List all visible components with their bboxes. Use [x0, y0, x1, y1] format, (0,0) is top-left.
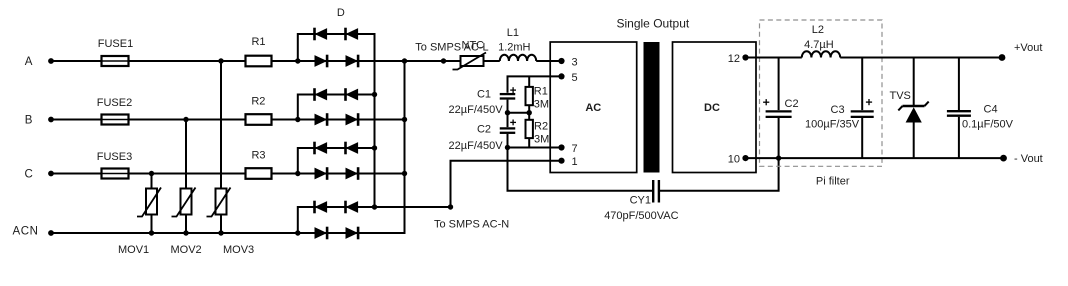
- junction bridge stub N: [295, 230, 300, 235]
- diode top-right B (points left): [346, 89, 359, 101]
- svg-text:L1: L1: [507, 27, 519, 39]
- junction C2/CY1 on -V rail: [776, 155, 781, 160]
- svg-text:C2: C2: [477, 124, 491, 136]
- diode top-left C (points left): [315, 142, 328, 154]
- svg-text:C4: C4: [984, 103, 998, 115]
- junction MOV1-ACN: [149, 230, 154, 235]
- junction bridge stub A: [295, 58, 300, 63]
- wire CY1 left: [508, 148, 653, 191]
- junction MOV3-ACN: [218, 230, 223, 235]
- svg-text:R2: R2: [251, 95, 265, 107]
- node -Vout: [1000, 155, 1007, 162]
- svg-text:1.2mH: 1.2mH: [498, 41, 530, 53]
- wire +V rail: [746, 57, 802, 59]
- svg-text:C: C: [24, 168, 32, 180]
- diode bottom-left C (points right): [315, 168, 328, 180]
- wire mid link: [508, 112, 530, 114]
- junction bus-A: [402, 58, 407, 63]
- svg-text:MOV2: MOV2: [171, 244, 202, 256]
- svg-text:100µF/35V: 100µF/35V: [805, 119, 860, 131]
- junction AC-N corner: [448, 204, 453, 209]
- diode bottom-left N (points right): [315, 227, 328, 239]
- diode top-left N (points left): [315, 201, 328, 213]
- wire phase A: [51, 60, 500, 62]
- wire phase C: [51, 173, 405, 175]
- junction bridge stub B: [295, 117, 300, 122]
- svg-text:470pF/500VAC: 470pF/500VAC: [604, 210, 678, 222]
- diode bottom-right C (points right): [346, 168, 359, 180]
- inductor L2: [802, 51, 840, 57]
- wire positive bus (bottom rows): [404, 61, 406, 234]
- diode top-left A (points left): [315, 28, 328, 40]
- resistor R3: [246, 168, 272, 179]
- converter AC box: [550, 42, 637, 173]
- node B terminal: [48, 117, 54, 123]
- diode top-right A (points left): [346, 28, 359, 40]
- svg-text:Single Output: Single Output: [617, 17, 690, 31]
- svg-text:B: B: [25, 114, 33, 126]
- svg-text:CY1: CY1: [630, 194, 651, 206]
- svg-text:4.7µH: 4.7µH: [804, 39, 834, 51]
- wire bridge stub and top row B: [298, 95, 375, 120]
- svg-text:R2: R2: [534, 121, 548, 133]
- wire pin5 net and C1 stem: [508, 76, 562, 92]
- svg-text:1: 1: [572, 156, 578, 168]
- wire C1-C2 link: [507, 100, 509, 128]
- varistor MOV1: [146, 189, 157, 215]
- junction bus-topB: [372, 92, 377, 97]
- capacitor C2 output: [778, 58, 780, 111]
- svg-text:5: 5: [572, 72, 578, 84]
- svg-text:- Vout: - Vout: [1014, 153, 1043, 165]
- fuse FUSE2: [102, 115, 129, 125]
- wire pin7 net: [508, 147, 562, 149]
- svg-text:FUSE1: FUSE1: [98, 38, 133, 50]
- diode top-right N (points left): [346, 201, 359, 213]
- pin 1: [558, 158, 564, 164]
- junction MOV1-C: [149, 171, 154, 176]
- wire AC-N row extension: [375, 206, 451, 208]
- pin 3: [558, 58, 564, 64]
- junction chain bottom: [505, 145, 510, 150]
- svg-text:+Vout: +Vout: [1014, 42, 1042, 54]
- node +Vout: [999, 54, 1006, 61]
- junction MOV2-B: [183, 117, 188, 122]
- junction bus-topN: [372, 204, 377, 209]
- capacitor C2: [500, 127, 516, 129]
- svg-text:C3: C3: [831, 104, 845, 116]
- wire -V rail: [746, 157, 1004, 159]
- node A terminal: [48, 58, 54, 64]
- svg-text:MOV1: MOV1: [118, 244, 149, 256]
- junction bus-C: [402, 171, 407, 176]
- junction mid chain: [505, 110, 510, 115]
- capacitor C3: [861, 58, 863, 111]
- svg-text:A: A: [25, 56, 33, 68]
- converter DC box: [673, 42, 757, 173]
- junction MOV2-ACN: [183, 230, 188, 235]
- svg-text:MOV3: MOV3: [223, 244, 254, 256]
- resistor R1: [246, 56, 272, 67]
- node ACN terminal: [48, 230, 54, 236]
- svg-text:TVS: TVS: [890, 90, 911, 102]
- wire CY1 right: [660, 158, 779, 191]
- junction bridge stub C: [295, 171, 300, 176]
- svg-text:D: D: [337, 7, 345, 19]
- diode bottom-right A (points right): [346, 55, 359, 67]
- svg-text:C1: C1: [477, 88, 491, 100]
- diode top-right C (points left): [346, 142, 359, 154]
- diode bottom-left B (points right): [315, 114, 328, 126]
- wire MOV3 stem: [220, 61, 222, 233]
- svg-text:To SMPS AC-N: To SMPS AC-N: [434, 218, 509, 230]
- svg-text:22µF/450V: 22µF/450V: [449, 104, 504, 116]
- svg-text:L2: L2: [812, 24, 824, 36]
- junction bus-topC: [372, 145, 377, 150]
- capacitor C1: [500, 93, 516, 95]
- svg-text:3M: 3M: [534, 133, 549, 145]
- resistor R1 bleeder: [528, 76, 530, 87]
- svg-text:R1: R1: [534, 86, 548, 98]
- junction bus-B: [402, 117, 407, 122]
- wire MOV1 stem: [151, 174, 153, 234]
- wire bridge stub and top row C: [298, 148, 375, 174]
- svg-text:12: 12: [728, 53, 740, 65]
- wire bridge stub and top row A: [298, 34, 375, 61]
- pin 5: [558, 73, 564, 79]
- svg-text:0.1µF/50V: 0.1µF/50V: [962, 119, 1014, 131]
- node AC-L: [441, 58, 446, 63]
- wire C2 bottom: [507, 134, 509, 148]
- dashed pi-filter box: [760, 20, 883, 166]
- resistor R2 bleeder: [528, 113, 530, 120]
- node C terminal: [48, 171, 54, 177]
- capacitor CY1: [652, 180, 654, 203]
- svg-text:AC: AC: [585, 102, 601, 114]
- svg-text:NTC: NTC: [462, 39, 485, 51]
- pin 7: [558, 144, 564, 150]
- diode bottom-right N (points right): [346, 227, 359, 239]
- svg-text:3: 3: [572, 56, 578, 68]
- varistor MOV3: [216, 189, 227, 215]
- wire pin1 net: [451, 161, 562, 207]
- svg-text:3M: 3M: [534, 99, 549, 111]
- svg-text:Pi filter: Pi filter: [816, 175, 850, 187]
- wire ACN line: [51, 232, 405, 234]
- svg-text:DC: DC: [704, 102, 720, 114]
- diode bottom-right B (points right): [346, 114, 359, 126]
- pin 12: [742, 54, 748, 60]
- svg-text:C2: C2: [785, 98, 799, 110]
- varistor MOV2: [181, 189, 192, 215]
- svg-text:FUSE2: FUSE2: [97, 97, 132, 109]
- diode bottom-left A (points right): [315, 55, 328, 67]
- svg-text:ACN: ACN: [12, 226, 38, 238]
- wire bridge stub and top row N: [298, 207, 375, 233]
- pin 10: [742, 155, 748, 161]
- fuse FUSE1: [102, 56, 129, 66]
- transformer isolation bar: [644, 42, 660, 173]
- svg-text:10: 10: [728, 153, 740, 165]
- inductor L1: [500, 55, 536, 61]
- fuse FUSE3: [102, 169, 129, 179]
- resistor R2: [246, 114, 272, 125]
- svg-text:FUSE3: FUSE3: [97, 151, 132, 163]
- junction mid bleeder: [527, 110, 532, 115]
- svg-text:R1: R1: [251, 36, 265, 48]
- svg-text:7: 7: [572, 143, 578, 155]
- wire phase B: [51, 119, 405, 121]
- diode TVS: [913, 58, 915, 106]
- capacitor C4: [958, 58, 960, 111]
- wire negative bus (top rows): [374, 33, 376, 207]
- wire MOV2 stem: [185, 120, 187, 234]
- svg-text:R3: R3: [251, 150, 265, 162]
- junction MOV3-A: [218, 58, 223, 63]
- diode top-left B (points left): [315, 89, 328, 101]
- svg-text:22µF/450V: 22µF/450V: [449, 140, 504, 152]
- thermistor NTC: [461, 56, 484, 66]
